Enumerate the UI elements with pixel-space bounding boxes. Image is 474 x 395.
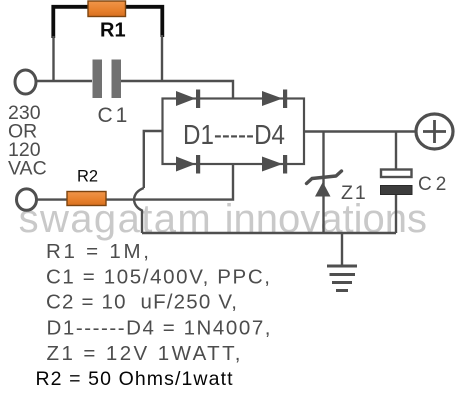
svg-text:R2 = 50 Ohms/1watt: R2 = 50 Ohms/1watt bbox=[36, 368, 234, 390]
svg-text:R1: R1 bbox=[100, 20, 126, 42]
svg-text:VAC: VAC bbox=[8, 158, 47, 180]
svg-text:C2: C2 bbox=[418, 174, 450, 195]
svg-text:C1: C1 bbox=[98, 104, 131, 127]
svg-text:D1-----D4: D1-----D4 bbox=[183, 119, 285, 150]
svg-text:D1------D4 = 1N4007,: D1------D4 = 1N4007, bbox=[47, 317, 271, 340]
svg-text:C2 = 10 uF/250 V,: C2 = 10 uF/250 V, bbox=[46, 291, 237, 314]
svg-text:Z1: Z1 bbox=[341, 182, 368, 204]
svg-text:Z1 = 12V 1WATT,: Z1 = 12V 1WATT, bbox=[47, 342, 241, 365]
svg-text:R2: R2 bbox=[77, 168, 98, 186]
svg-text:C1 = 105/400V, PPC,: C1 = 105/400V, PPC, bbox=[46, 266, 270, 289]
